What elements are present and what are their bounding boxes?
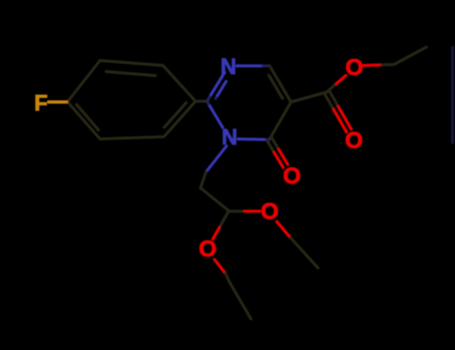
bond N3-CH2 acetal xyxy=(206,146,227,172)
benzene double bond inner top xyxy=(106,72,155,76)
bond C5-C4 xyxy=(269,102,291,140)
left O ethyl: CH2-CH3 xyxy=(229,282,251,319)
svg-text:O: O xyxy=(345,127,363,153)
bond Cester-Oester xyxy=(327,84,337,92)
svg-text:O: O xyxy=(199,236,217,262)
right O ethyl: CH2-CH3 xyxy=(290,238,318,268)
bond Cester=Ocarbonyl line B xyxy=(329,91,338,107)
bond C2-N3 xyxy=(207,101,210,106)
svg-text:F: F xyxy=(34,91,47,116)
right O ethyl: O-CH2 xyxy=(277,222,291,238)
cropped neighbor line at right edge xyxy=(451,48,454,143)
bond aryl-C2 xyxy=(196,100,208,103)
bond N1-C6 xyxy=(237,64,264,67)
left O ethyl: O-CH2 xyxy=(215,260,226,274)
bond CH2-CH3 ethyl ester xyxy=(394,47,427,65)
svg-text:O: O xyxy=(283,162,301,188)
bond C6=C5 inner xyxy=(269,75,283,98)
bond Oester-CH2 xyxy=(363,63,382,67)
bond CH-O left xyxy=(219,211,228,228)
svg-text:O: O xyxy=(345,54,363,80)
bond CH2-CH acetal xyxy=(201,188,229,211)
svg-text:N: N xyxy=(221,54,237,79)
svg-text:O: O xyxy=(261,198,279,224)
bond F-C xyxy=(49,100,67,103)
benzene double bond inner left xyxy=(77,105,99,131)
pyrimidine bond C2=N1 outer xyxy=(207,95,211,102)
svg-text:N: N xyxy=(222,125,238,150)
pyrimidine bond C2=N1 inner xyxy=(216,96,218,99)
bond C4=O ring, line A xyxy=(267,141,274,153)
bond CH-O right xyxy=(229,210,245,213)
bond C4-N3 xyxy=(264,138,269,141)
bond C4=O ring, line B xyxy=(272,138,279,150)
bond C5-Cester xyxy=(291,92,327,102)
benzene double bond inner right xyxy=(164,103,186,128)
bond C6=C5 outer xyxy=(270,66,291,102)
benzene ring (4-fluorophenyl) xyxy=(68,61,196,140)
bond Cester=Ocarbonyl line A xyxy=(324,93,333,109)
